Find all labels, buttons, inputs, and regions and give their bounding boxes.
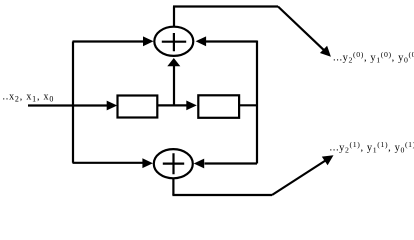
arrowhead into box D2 xyxy=(186,101,197,111)
delay box D1 xyxy=(118,96,158,118)
wire top output diagonal xyxy=(278,7,324,51)
wire bottom output diagonal xyxy=(272,161,326,196)
delay box D2 xyxy=(198,95,239,118)
adder U1 plus sign xyxy=(162,33,186,51)
wire bottom adder output down xyxy=(172,179,174,195)
wire top adder output up xyxy=(173,7,175,27)
svg-text:...y2(1), y1(1), y0(1): ...y2(1), y1(1), y0(1) xyxy=(330,140,414,155)
wire bottom-left horizontal to adder U2 xyxy=(73,162,144,164)
arrowhead into adder U1 left xyxy=(143,36,154,46)
wire bottom output horizontal xyxy=(172,194,272,196)
wire top adder right input horizontal xyxy=(206,40,257,42)
arrowhead bottom output diagonal xyxy=(322,155,334,165)
arrowhead into adder U2 left xyxy=(142,158,153,168)
wire box1 to box2 xyxy=(158,104,188,106)
wire top-left horizontal to adder U1 xyxy=(73,40,145,42)
wire right vertical xyxy=(256,41,258,164)
arrowhead into adder U1 right xyxy=(196,36,207,46)
wire top output horizontal xyxy=(173,5,278,7)
wire middle vertical up to adder U1 xyxy=(173,66,175,106)
adder U1 xyxy=(154,27,193,56)
arrowhead into box D1 xyxy=(107,101,118,111)
wire box2 output xyxy=(239,104,257,106)
arrowhead into adder U1 bottom xyxy=(167,58,180,66)
adder U2 xyxy=(154,149,193,178)
arrowhead top output diagonal xyxy=(320,46,331,57)
wire left branch vertical xyxy=(72,42,74,163)
svg-text:..x2, x1, x0: ..x2, x1, x0 xyxy=(3,92,55,104)
adder U2 plus sign xyxy=(163,153,184,174)
svg-text:...y2(0), y1(0), y0(0): ...y2(0), y1(0), y0(0) xyxy=(333,50,414,65)
wire bottom adder right input horizontal xyxy=(205,162,258,164)
wire input horizontal xyxy=(28,104,108,106)
arrowhead into adder U2 right xyxy=(194,159,205,169)
